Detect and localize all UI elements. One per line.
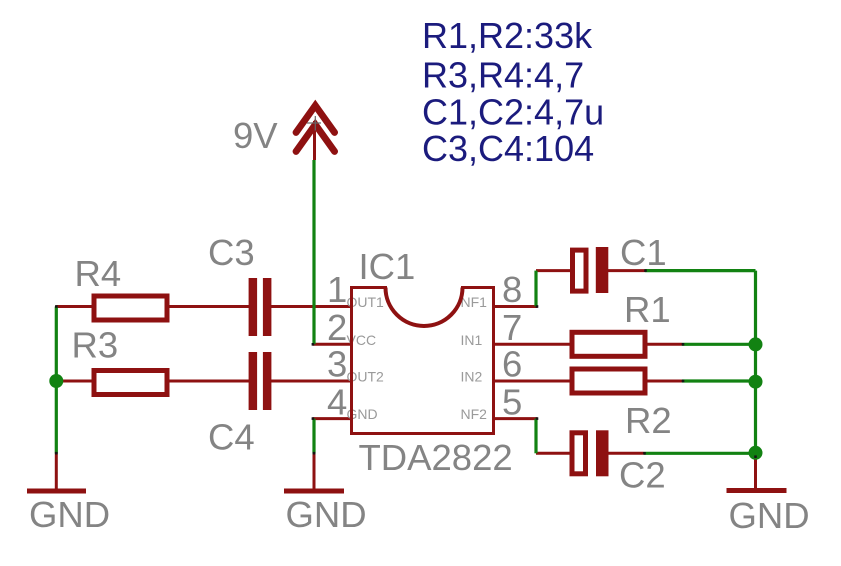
svg-text:3: 3 (327, 344, 347, 385)
svg-text:6: 6 (502, 344, 522, 385)
svg-text:C1,C2:4,7u: C1,C2:4,7u (422, 92, 604, 133)
svg-text:9V: 9V (233, 115, 278, 156)
svg-text:5: 5 (502, 381, 522, 422)
svg-text:C3: C3 (208, 232, 255, 273)
svg-text:1: 1 (327, 269, 347, 310)
svg-text:GND: GND (286, 494, 367, 535)
svg-text:R3: R3 (72, 325, 119, 366)
svg-text:IC1: IC1 (359, 246, 416, 287)
svg-text:IN2: IN2 (461, 369, 483, 385)
svg-text:7: 7 (502, 307, 522, 348)
svg-text:2: 2 (327, 307, 347, 348)
svg-text:C4: C4 (208, 417, 255, 458)
svg-text:R4: R4 (75, 253, 122, 294)
svg-text:C1: C1 (620, 232, 667, 273)
svg-text:R2: R2 (625, 400, 672, 441)
svg-text:TDA2822: TDA2822 (359, 437, 513, 478)
svg-text:R3,R4:4,7: R3,R4:4,7 (422, 55, 584, 96)
svg-text:GND: GND (729, 495, 810, 536)
svg-text:4: 4 (327, 381, 347, 422)
svg-text:IN1: IN1 (461, 332, 483, 348)
svg-text:R1,R2:33k: R1,R2:33k (422, 15, 593, 56)
svg-text:R1: R1 (624, 289, 671, 330)
svg-text:NF2: NF2 (461, 406, 488, 422)
svg-text:8: 8 (502, 269, 522, 310)
svg-text:NF1: NF1 (461, 294, 488, 310)
svg-text:C3,C4:104: C3,C4:104 (422, 128, 594, 169)
svg-text:C2: C2 (619, 455, 666, 496)
svg-text:GND: GND (29, 494, 110, 535)
